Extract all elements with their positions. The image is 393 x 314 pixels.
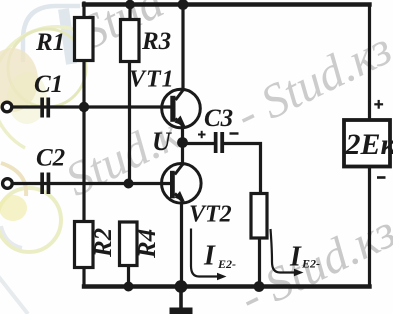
- resistor R3: [121, 20, 140, 62]
- wm rounded square corner bottom-left: [1, 226, 22, 248]
- input terminal 1: [2, 102, 12, 112]
- svg-text:U: U: [152, 127, 172, 156]
- svg-text:VT2: VT2: [189, 202, 232, 228]
- svg-text:R2: R2: [90, 228, 117, 258]
- wire R1 top drop: [82, 3, 85, 18]
- node dot R3/C2/base VT2: [124, 179, 134, 189]
- node dot VT1 collector rail: [178, 0, 189, 10]
- wire R3-R4 column: [128, 62, 131, 182]
- svg-text:R4: R4: [134, 229, 161, 259]
- wire base VT1 horizontal: [12, 105, 171, 108]
- wm faint diagonal bottom-left: [0, 276, 28, 314]
- node dot right resistor bottom: [254, 281, 265, 292]
- wire R1-R2 column: [82, 107, 85, 222]
- current arrow 2: [271, 229, 297, 273]
- wm blob: [0, 48, 38, 112]
- current arrow 1: [191, 229, 219, 277]
- svg-text:C1: C1: [34, 71, 63, 98]
- svg-text:I: I: [203, 241, 216, 272]
- wire right column bottom: [368, 166, 371, 287]
- transistor VT1: [162, 89, 201, 128]
- svg-text:Stud.к: Stud.к: [58, 106, 189, 206]
- resistor right (emitter load): [251, 194, 267, 239]
- resistor R4: [120, 222, 138, 266]
- node dot R1/C1/base: [79, 102, 89, 112]
- wire R1 bottom lead: [82, 60, 85, 104]
- wire U node to C3: [183, 142, 215, 145]
- svg-text:Е2-: Е2-: [217, 257, 236, 271]
- C3 plus sign: [198, 131, 206, 138]
- input terminal 2: [3, 179, 13, 189]
- capacitor C1: [40, 98, 50, 118]
- wm rounded square corner top-left: [23, 6, 80, 62]
- resistor R1: [75, 18, 94, 61]
- wire right resistor bottom lead: [258, 237, 261, 288]
- wire right column top: [368, 5, 371, 121]
- wire VT1 collector column: [181, 5, 184, 90]
- svg-text:Е2-: Е2-: [301, 257, 320, 271]
- node dot R3 top rail: [125, 0, 135, 9]
- wire VT2 emitter down: [180, 203, 183, 287]
- svg-text:VT1: VT1: [129, 67, 175, 93]
- wire ground stub: [179, 287, 183, 309]
- wire C2 base VT2 horizontal: [13, 182, 170, 185]
- capacitor C3: [214, 132, 224, 153]
- battery 2Ek box: [344, 120, 390, 167]
- node dot emitter ground: [175, 280, 188, 293]
- wm swirl circle: [8, 29, 86, 107]
- wm blue band: [64, 9, 72, 64]
- svg-text:C3: C3: [204, 105, 233, 132]
- battery minus: [377, 176, 386, 179]
- node dot R4 bottom: [124, 282, 134, 292]
- wire R4 bottom lead: [127, 266, 130, 288]
- wm bottom tan arc: [1, 163, 26, 196]
- svg-text:I: I: [289, 242, 302, 273]
- wire R3 top lead: [128, 5, 131, 20]
- wm swirl arc big: [0, 27, 88, 148]
- wire R2 bottom lead: [82, 268, 85, 287]
- C3 minus sign: [230, 132, 239, 134]
- wire VT2 collector: [181, 145, 184, 164]
- ground: [170, 308, 193, 314]
- svg-text:2Ек: 2Ек: [345, 128, 393, 161]
- svg-text:R1: R1: [35, 29, 65, 56]
- resistor R2: [75, 222, 94, 268]
- wm bottom circle: [0, 188, 61, 252]
- battery plus: [374, 100, 383, 109]
- wire bottom rail: [84, 284, 370, 288]
- svg-text:C2: C2: [36, 145, 65, 172]
- wire C3 to corner and down: [224, 144, 261, 195]
- transistor VT2: [162, 164, 202, 204]
- svg-text:R3: R3: [141, 28, 171, 55]
- node U dot: [177, 137, 188, 148]
- capacitor C2: [40, 173, 50, 195]
- wire VT1 emitter to U node: [181, 127, 184, 141]
- wire top rail: [84, 2, 370, 6]
